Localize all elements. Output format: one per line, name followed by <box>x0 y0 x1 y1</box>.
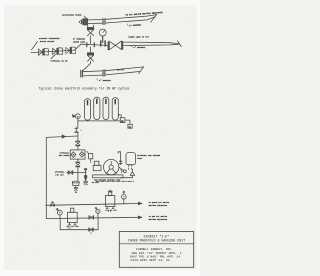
svg-text:MUD/GAS SEPARATOR: MUD/GAS SEPARATOR <box>149 204 168 207</box>
svg-text:CHOKE MANIFOLD & GAUGING UNIT: CHOKE MANIFOLD & GAUGING UNIT <box>128 238 185 242</box>
svg-text:0410-0295 SEPT 14, 20: 0410-0295 SEPT 14, 20 <box>131 258 170 262</box>
svg-text:GAS ENGINE DRIVEN PUMP: GAS ENGINE DRIVEN PUMP <box>94 179 121 182</box>
svg-text:STACK OUTLET: STACK OUTLET <box>40 40 55 43</box>
svg-text:ADJUSTABLE CHOKE: ADJUSTABLE CHOKE <box>62 14 82 17</box>
svg-text:TO WASTE PIT AND/OR: TO WASTE PIT AND/OR <box>149 201 170 204</box>
svg-text:Typical choke manifold assembl: Typical choke manifold assembly for 3M W… <box>39 87 130 91</box>
svg-text:TO PIT AND/OR MUD/GAS SEPARATO: TO PIT AND/OR MUD/GAS SEPARATOR <box>125 11 163 17</box>
svg-text:4 1: 4 1 <box>68 227 71 230</box>
svg-text:PUMP: PUMP <box>137 157 143 160</box>
svg-text:AIR DRIVE: AIR DRIVE <box>59 154 71 157</box>
svg-text:TO MUD PIT AND/OR: TO MUD PIT AND/OR <box>149 215 168 218</box>
svg-text:2" NOMINAL: 2" NOMINAL <box>134 46 147 49</box>
svg-text:2" NOMINAL: 2" NOMINAL <box>129 23 142 27</box>
svg-text:OPTIONAL ON 3M: OPTIONAL ON 3M <box>51 60 69 63</box>
svg-text:4 1: 4 1 <box>108 210 111 213</box>
svg-text:POP OFF: POP OFF <box>55 173 64 176</box>
svg-text:CHOKE LINE: CHOKE LINE <box>73 40 86 43</box>
svg-text:TO PIT: TO PIT <box>117 68 125 72</box>
svg-text:MUD/GAS SEPARATOR: MUD/GAS SEPARATOR <box>149 218 168 221</box>
svg-text:2" NOMINAL: 2" NOMINAL <box>99 79 112 82</box>
svg-text:BLEED LINE TO PIT: BLEED LINE TO PIT <box>129 36 150 39</box>
